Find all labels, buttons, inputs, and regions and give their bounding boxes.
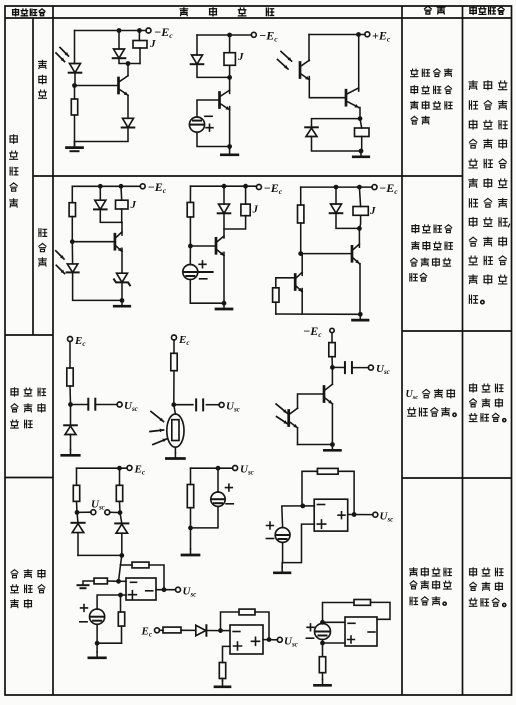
wire LDR to ground: [174, 447, 176, 453]
wire top rail R4C2: [191, 467, 233, 469]
label Usc R3C1: [124, 400, 138, 413]
label J R2C2: [252, 204, 259, 216]
junction node C: [188, 244, 193, 249]
wire base resistor link: [276, 278, 295, 288]
label J R2C1: [130, 199, 137, 211]
wire bridge to inverting node: [121, 555, 122, 565]
junction node G: [330, 365, 335, 370]
label minus G4: [266, 538, 273, 540]
wire top rail R1C1: [75, 30, 147, 32]
phototransistor Q2: [295, 272, 302, 292]
wire supply R3C1: [69, 341, 71, 368]
resistor R3: [187, 202, 193, 217]
features row1 text: [411, 69, 452, 124]
label Usc R3C2: [226, 401, 240, 414]
op-amp A1 minus: [317, 504, 324, 506]
wire feedback right R4C6: [371, 602, 391, 619]
wire base R2C2: [190, 245, 216, 247]
terminal Ec R4C5: [155, 628, 160, 633]
label plus G2: [199, 261, 206, 268]
ground R1C3: [353, 151, 369, 157]
features row2 text: [410, 225, 453, 281]
diode VD4: [191, 55, 204, 64]
ground R1C2: [221, 147, 238, 155]
wire cap to out R3C2: [206, 404, 219, 406]
photodiode VD11: [71, 523, 84, 533]
label Ec R4C5: [141, 626, 152, 639]
terminal Usc R3C3: [368, 365, 373, 370]
wire top rail R2C2: [191, 185, 257, 187]
junction top node R4C6: [320, 620, 325, 625]
wire emitter Q1 to base Q2: [309, 77, 346, 98]
features row3 text: [406, 389, 457, 416]
wire VD4 to junction: [197, 64, 230, 77]
wire collector V6: [358, 228, 360, 247]
wire collector V2: [229, 77, 231, 93]
wire emitter V7: [331, 404, 333, 445]
wire emitter V4: [121, 248, 123, 273]
wire base V7: [298, 394, 325, 408]
wire collector V3: [358, 35, 360, 92]
wire bottom rail R4C4: [97, 642, 121, 644]
diode VD5: [305, 127, 318, 136]
row divider row1/row2: [33, 175, 463, 177]
input ground mark R4C4: [78, 585, 89, 588]
wire input right R4C4: [107, 580, 118, 582]
junction node B: [70, 239, 75, 244]
junction bottom node R1C3: [359, 149, 364, 154]
svg-text:J: J: [252, 204, 259, 216]
label minus G6: [306, 637, 313, 639]
junction node J: [188, 526, 193, 531]
relay J6 coil: [353, 207, 368, 216]
wire G4 bottom: [282, 542, 284, 562]
junction node H: [75, 510, 80, 515]
wire G4 top: [282, 506, 302, 528]
wire collector Q1 lead: [308, 35, 310, 61]
ground R4C3: [274, 563, 290, 573]
junction node A: [72, 83, 77, 88]
wire flyback left: [312, 119, 361, 128]
column line features/applications: [462, 6, 464, 695]
label Usc R4C3: [380, 511, 394, 524]
resistor R2: [69, 203, 75, 217]
wire VD12 leads: [120, 513, 122, 556]
junction collector node R1C2: [227, 75, 232, 80]
feedback resistor R19: [354, 600, 371, 606]
wire to cap C2: [174, 404, 193, 406]
header text 电路名称: [13, 9, 45, 16]
junction collector node: [126, 61, 131, 66]
wire top rail R2C3: [301, 186, 373, 188]
junction flyback node: [358, 116, 363, 121]
wire collector V7: [331, 367, 333, 384]
wire relay J1 leads: [138, 31, 141, 64]
op-amp A2 out minus: [146, 590, 153, 592]
row divider row3/row4 left: [5, 477, 53, 479]
terminal Usc R4C4: [176, 587, 181, 592]
wire left branch R2C3: [300, 187, 302, 254]
resistor R4: [298, 205, 304, 223]
label Usc R4C5: [284, 636, 298, 649]
op-amp A3 minus: [233, 631, 240, 633]
transistor V7: [324, 384, 332, 404]
wire Ec to resistor: [159, 629, 163, 631]
wire relay J6 leads: [359, 187, 360, 228]
resistor R18: [219, 663, 225, 679]
junction node E: [68, 402, 73, 407]
wire R6 to node: [69, 386, 72, 405]
transistor V1: [119, 76, 129, 96]
wire to cap C3: [332, 366, 345, 368]
resistor R6: [67, 368, 73, 386]
ground R4C5: [215, 681, 230, 687]
junction inverting node R4C5: [218, 628, 223, 633]
terminal Usc R4C2: [233, 466, 238, 471]
terminal Usc right R4C1: [105, 510, 110, 515]
transistor V5: [216, 236, 224, 256]
label -Ec R2C3: [379, 181, 398, 196]
wire resistor to diode: [181, 629, 196, 631]
wire G2 leads: [190, 246, 224, 303]
wire top rail R1C2: [197, 34, 252, 36]
wire relay J3 leads: [360, 119, 362, 151]
wire emitter V2: [229, 107, 231, 147]
row divider row3/row4 right: [402, 477, 512, 479]
wire base R2C3: [301, 253, 352, 255]
wire base R2C1: [72, 241, 115, 243]
terminal -Ec R2C2: [256, 185, 261, 190]
terminal Usc R4C5: [277, 637, 282, 642]
wire relay J4 leads: [120, 186, 123, 222]
svg-text:J: J: [369, 205, 376, 217]
op-amp A2 plus: [128, 591, 136, 599]
resistor R5: [273, 288, 279, 302]
wire bottom rail R3C3: [298, 444, 333, 446]
junction inverting node R4C3: [300, 504, 305, 509]
zener diode VS1: [114, 273, 130, 285]
junction: [137, 28, 142, 33]
phototransistor Q1: [300, 60, 309, 80]
photocell G2: [183, 265, 213, 280]
light arrows Q3: [276, 404, 287, 424]
feedback resistor R13: [132, 562, 149, 568]
wire inverting input R4C5: [221, 630, 231, 632]
header text 应用场合: [470, 7, 504, 14]
photodiode VD10: [64, 425, 77, 434]
diode VD3: [122, 118, 135, 127]
wire emitter V1: [127, 95, 129, 118]
transistor V4: [115, 232, 122, 252]
op-amp A1 out plus: [338, 512, 345, 519]
terminal Ec R3C2: [172, 335, 177, 340]
relay J5 coil: [241, 204, 250, 216]
photodiode VD7: [67, 264, 79, 273]
wire cap to out R3C1: [95, 404, 117, 406]
resistor R8: [329, 343, 335, 357]
label Ec R3C2: [178, 334, 189, 347]
label Ec R3C1: [74, 335, 85, 348]
feedback resistor R17: [239, 609, 255, 615]
wire VD10 leads: [70, 405, 72, 450]
junction: [216, 466, 221, 471]
wire VD9 branch: [336, 187, 359, 228]
wire feedback R4C5: [221, 612, 240, 631]
wire feedback left R4C3: [302, 471, 317, 506]
wire R8 to node: [331, 357, 333, 368]
ground R4C2: [182, 549, 199, 555]
feedback resistor R12: [317, 468, 338, 474]
wire output R4C3: [348, 514, 373, 516]
relay J3 coil: [355, 128, 370, 137]
diode VD2: [113, 49, 126, 58]
wire R1 leads: [74, 86, 76, 147]
applications rows1-2 text: [469, 81, 510, 304]
diode VD13: [196, 625, 207, 636]
wire emitter V5: [223, 252, 225, 303]
junction inverting node R4C4: [116, 579, 121, 584]
label J R1C2: [237, 51, 244, 63]
ground R2C1: [114, 300, 130, 306]
header underline: [5, 17, 512, 19]
light arrows RG: [150, 412, 167, 445]
wire R15 bottom: [121, 626, 123, 643]
wire diode to node: [207, 630, 221, 632]
label J R2C3: [369, 205, 376, 217]
light arrows Q1: [278, 52, 292, 70]
label J R1C1: [149, 38, 156, 50]
label plus G3: [226, 484, 233, 491]
op-amp A4 plus: [348, 636, 355, 643]
ground R1C1: [67, 142, 83, 151]
wire base R1C2: [197, 100, 220, 117]
diode VD6: [94, 200, 107, 209]
wire inverting input R4C6: [323, 621, 346, 623]
op-amp A3 out plus: [252, 637, 260, 645]
features row4 text: [410, 568, 452, 605]
junction: [227, 33, 232, 38]
junction node F: [171, 402, 176, 407]
wire bottom rail R2C3: [276, 313, 360, 315]
wire bottom to resistor R20: [322, 643, 324, 657]
terminal Ec R3C1: [68, 337, 73, 342]
wire node to ground R4C2: [190, 528, 192, 549]
wire top rail R2C1: [72, 185, 140, 187]
op-amp A4: [345, 617, 377, 646]
junction bottom node R4C4: [95, 641, 100, 646]
resistor R10: [116, 485, 122, 501]
svg-text:J: J: [149, 38, 156, 50]
ground R4C4: [89, 643, 106, 658]
ground R2C3: [353, 314, 369, 320]
wire VD2 branch: [119, 31, 140, 64]
resistor R1: [71, 99, 77, 115]
label minus G5: [80, 621, 87, 623]
wire feedback right R4C5: [255, 612, 269, 640]
junction: [243, 184, 248, 189]
wire VD8 branch: [223, 186, 225, 238]
junction bottom node R4C6: [320, 641, 325, 646]
junction emitter node R2C2: [222, 301, 227, 306]
op-amp A2: [126, 578, 156, 600]
label Usc R4C1: [91, 499, 105, 512]
wire emitter V3: [359, 108, 360, 119]
photocell G3: [211, 492, 225, 506]
transistor V2: [220, 90, 230, 110]
resistor R20: [319, 657, 325, 673]
ground R3C2: [166, 453, 184, 459]
wire G5 bottom: [96, 624, 98, 643]
resistor R16: [163, 627, 181, 633]
resistor R11: [187, 485, 193, 508]
wire VD6 branch: [100, 186, 122, 222]
applications row4 text: [469, 568, 505, 607]
wire output R4C4: [156, 589, 176, 591]
junction output node R4C4: [162, 587, 167, 592]
junction output node R4C3: [352, 512, 357, 517]
diode VD8: [218, 204, 231, 213]
label minus G2: [200, 278, 207, 280]
row divider row2/row3 right: [402, 330, 512, 332]
wire left branch R1C1: [74, 31, 76, 64]
op-amp A4 minus: [348, 622, 355, 624]
wire relay J5 leads: [224, 186, 246, 229]
light arrows VD7: [56, 251, 65, 274]
transistor V6: [352, 244, 359, 264]
header text 特点: [425, 6, 445, 14]
wire collector V1: [127, 64, 129, 76]
row label 交流光电变换电路: [11, 388, 46, 428]
light arrows VD1: [56, 48, 69, 62]
junction: [117, 466, 122, 471]
row label 明通式: [39, 60, 47, 98]
wire node to LDR: [174, 405, 176, 414]
wire supply R3C2: [173, 340, 175, 354]
resistor R9: [73, 485, 79, 501]
terminal Usc R3C1: [117, 402, 122, 407]
junction node D: [298, 251, 303, 256]
capacitor C1: [88, 399, 95, 410]
header text 电路举例: [180, 8, 273, 16]
terminal +Ec R1C3: [365, 32, 370, 37]
junction node I: [118, 510, 123, 515]
op-amp A2 minus: [131, 581, 137, 583]
photoresistor RG: [167, 414, 184, 447]
wire collector V4: [121, 222, 123, 235]
wire R5 bottom: [275, 302, 277, 314]
junction node K: [118, 593, 123, 598]
wire VD7 leads: [72, 242, 122, 301]
wire noninverting input R4C3: [283, 524, 315, 563]
photocell G6: [315, 624, 331, 640]
label -Ec R2C1: [148, 180, 167, 195]
svg-text:J: J: [130, 199, 137, 211]
junction: [334, 185, 339, 190]
column line name/examples: [52, 6, 54, 695]
wire to left Usc terminal: [77, 511, 91, 513]
junction: [98, 184, 103, 189]
wire emitter Q2: [301, 289, 303, 314]
junction bottom node R4C1: [119, 553, 124, 558]
column line examples/features: [401, 6, 403, 695]
terminal Usc left R4C1: [91, 510, 96, 515]
wire VD5 bottom: [312, 137, 362, 152]
label Usc R4C4: [183, 586, 197, 599]
wire VD1 to node: [74, 73, 76, 86]
row label 暗通式: [39, 229, 47, 266]
wire VD11 leads: [77, 512, 78, 555]
wire top rail R1C3: [309, 34, 365, 36]
wire left branch R4C1: [76, 468, 79, 512]
label plus G6: [307, 624, 314, 631]
wire left branch R2C2: [189, 186, 191, 246]
wire R18 to ground: [222, 679, 224, 682]
label -Ec R2C2: [264, 181, 283, 196]
label minus G1: [205, 115, 212, 117]
junction: [119, 184, 124, 189]
wire left branch R1C2: [196, 35, 198, 55]
wire emitter Q3: [297, 428, 299, 445]
wire output R4C5: [263, 639, 278, 641]
op-amp A1: [314, 499, 348, 531]
junction emitter node R1C2: [227, 144, 232, 149]
wire inverting input R4C4: [119, 580, 127, 582]
label Usc R3C3: [376, 363, 390, 376]
label +Ec R1C3: [372, 29, 391, 44]
wire noninverting input R4C5: [223, 646, 231, 662]
row label 直流光电变换电路: [11, 570, 45, 608]
terminal Usc R3C2: [219, 402, 224, 407]
ground R3C3: [324, 445, 340, 451]
op-amp A3 plus: [234, 642, 242, 650]
capacitor C2: [196, 399, 203, 410]
phototransistor Q3: [289, 408, 298, 428]
op-amp A3: [230, 625, 263, 654]
diode VD9: [330, 204, 343, 213]
sub-column line in name column: [32, 18, 34, 335]
label -Ec R1C1: [154, 25, 173, 40]
wire top feedback R4C6: [323, 603, 355, 623]
terminal Usc R4C3: [373, 512, 378, 517]
wire top rail R4C1: [77, 467, 128, 469]
svg-text:J: J: [237, 51, 244, 63]
label plus G4: [267, 522, 274, 529]
wire G3 leads: [191, 468, 219, 528]
ground R4C6: [315, 680, 331, 686]
wire feedback tap R4C4: [119, 565, 121, 581]
resistor R7: [171, 353, 177, 370]
wire G1 bottom: [197, 132, 230, 146]
wire feedback right R4C4: [149, 565, 164, 590]
wire collector Q2: [301, 254, 303, 276]
wire emitter V6: [358, 264, 361, 315]
photodiode VD1: [69, 64, 82, 73]
terminal Ec R4C1: [127, 465, 132, 470]
terminal -Ec R1C2: [251, 32, 256, 37]
input resistor R14: [94, 578, 107, 584]
applications row3 text: [469, 384, 505, 422]
wire bottom R1C1: [75, 128, 129, 142]
relay J4 coil: [116, 200, 129, 209]
label Usc R4C2: [240, 464, 254, 477]
wire R7 to node: [173, 371, 175, 405]
wire input left R4C4: [83, 581, 94, 585]
relay J2 coil: [224, 53, 235, 66]
terminal -Ec R1C1: [146, 28, 151, 33]
label -Ec R1C2: [259, 29, 278, 44]
wire VS1 bottom: [121, 282, 123, 300]
row label 光电继电器: [10, 135, 18, 207]
